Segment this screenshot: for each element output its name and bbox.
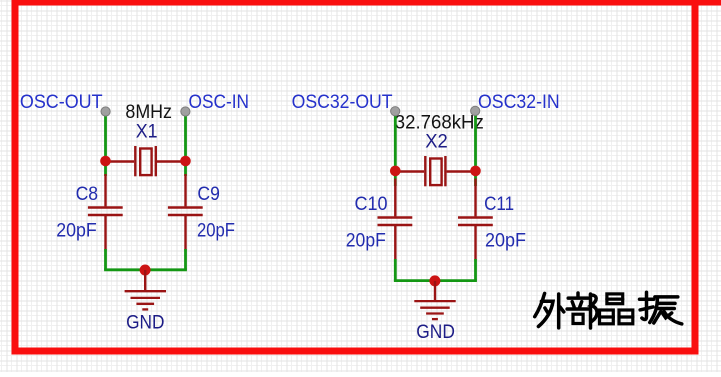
wire OSC32-IN vertical — [474, 111, 477, 186]
junction dot ground rail — [140, 265, 151, 276]
char 外 — [535, 293, 564, 328]
wire OSC-OUT vertical — [104, 112, 107, 177]
svg-text:C9: C9 — [197, 184, 220, 205]
junction dot right (X2) — [470, 166, 481, 177]
svg-text:OSC-IN: OSC-IN — [189, 92, 250, 113]
capacitor C10 — [378, 179, 413, 261]
svg-text:C10: C10 — [355, 194, 388, 215]
wire C11 to ground rail — [474, 259, 477, 281]
crystal X2 — [395, 156, 475, 186]
pin-end dot OSC-OUT — [101, 107, 110, 116]
svg-text:X2: X2 — [425, 132, 448, 153]
wire ground rail horizontal (right) — [394, 279, 477, 282]
capacitor C8 — [88, 174, 123, 251]
capacitor C11 — [458, 179, 493, 261]
ground symbol GND (right) — [414, 281, 455, 319]
char 部 — [567, 293, 597, 328]
char 晶 — [600, 294, 633, 324]
ground symbol GND (left) — [125, 270, 166, 309]
svg-text:GND: GND — [126, 313, 164, 334]
char 振 — [640, 292, 682, 324]
wire C10 to ground rail — [394, 259, 397, 281]
wire C8 to ground rail — [104, 249, 107, 270]
wire ground rail horizontal — [104, 268, 187, 271]
crystal X1 — [106, 146, 186, 176]
svg-text:20pF: 20pF — [197, 221, 235, 242]
junction dot left — [100, 156, 111, 167]
svg-text:20pF: 20pF — [56, 221, 97, 242]
svg-text:8MHz: 8MHz — [125, 102, 172, 123]
svg-text:OSC-OUT: OSC-OUT — [20, 92, 103, 113]
wire OSC-IN vertical — [184, 112, 187, 177]
svg-text:OSC32-OUT: OSC32-OUT — [292, 92, 393, 113]
svg-text:C11: C11 — [484, 194, 514, 215]
wire OSC32-OUT vertical — [394, 111, 397, 186]
junction dot right — [180, 156, 191, 167]
svg-text:X1: X1 — [136, 121, 158, 142]
capacitor C9 — [168, 174, 203, 251]
svg-text:OSC32-IN: OSC32-IN — [478, 92, 560, 113]
svg-text:GND: GND — [416, 322, 455, 343]
pin-end dot OSC-IN — [181, 107, 190, 116]
pin-end dot OSC32-IN — [471, 106, 480, 115]
svg-text:20pF: 20pF — [346, 231, 386, 252]
junction dot left (X2) — [390, 166, 401, 177]
title text 外部晶振 (drawn strokes) — [535, 292, 682, 328]
pin-end dot OSC32-OUT — [391, 107, 400, 116]
svg-text:C8: C8 — [76, 184, 99, 205]
junction dot ground rail (right) — [429, 275, 440, 286]
wire C9 to ground rail — [184, 249, 187, 270]
svg-text:20pF: 20pF — [485, 231, 526, 252]
